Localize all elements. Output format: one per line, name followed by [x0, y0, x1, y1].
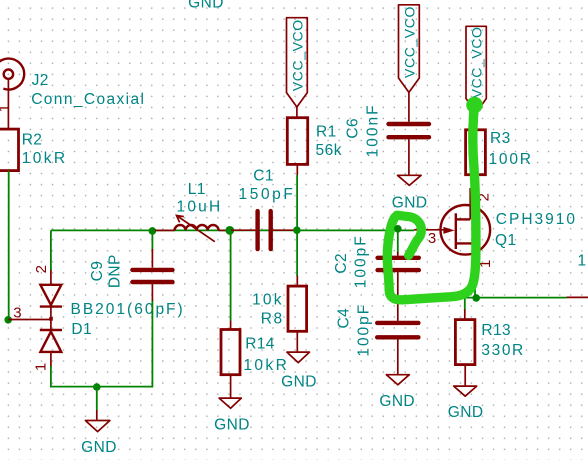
wire between diodes — [50, 307, 52, 330]
svg-text:56k: 56k — [316, 142, 343, 159]
C1 left pin — [231, 229, 255, 231]
R1 bottom pin — [296, 164, 298, 175]
wire D1 bottom loop — [51, 300, 152, 387]
wire R1 to main node — [296, 175, 298, 230]
junction C1 right / R1 / R8 — [293, 226, 301, 234]
C2 top pin — [397, 252, 399, 256]
wire pin 3 of D1 — [8, 319, 50, 321]
junction emitter/output node — [472, 294, 480, 302]
wire gate pin — [414, 229, 444, 231]
VCC #3 stem — [475, 113, 477, 130]
ground symbol under R13 — [454, 386, 477, 396]
D1 pin 3 connection square — [49, 317, 53, 321]
D1 pin 1 stub — [50, 352, 52, 367]
power flag VCC_VCO #3 — [466, 26, 486, 113]
svg-text:R13: R13 — [481, 322, 511, 339]
svg-text:CPH3910: CPH3910 — [496, 211, 577, 228]
svg-text:150pF: 150pF — [239, 186, 296, 203]
svg-text:GND: GND — [214, 417, 250, 434]
capacitor C1 — [258, 211, 271, 249]
C4 bottom pin — [397, 339, 399, 374]
C1 right pin — [273, 229, 297, 231]
R8 bottom pin — [296, 331, 298, 352]
svg-text:100nF: 100nF — [364, 103, 381, 157]
svg-text:R2: R2 — [22, 131, 43, 148]
junction at GND tap — [93, 383, 101, 391]
resistor R8 — [288, 286, 307, 331]
wire GND stem — [96, 387, 98, 410]
connector J2 coaxial symbol — [0, 59, 24, 90]
svg-text:Q1: Q1 — [495, 232, 516, 249]
L1 variable arrow — [177, 216, 215, 242]
ground symbol under R8 — [287, 352, 310, 363]
wire C2 to C4 — [397, 272, 399, 321]
R13 bottom pin — [464, 365, 466, 387]
svg-text:GND: GND — [379, 393, 415, 410]
svg-text:C2: C2 — [333, 253, 350, 274]
svg-text:J2: J2 — [32, 72, 49, 89]
D1 pin 2 stub — [50, 270, 52, 285]
Q1 collector pin — [469, 188, 471, 219]
svg-text:10k: 10k — [252, 291, 284, 308]
svg-text:1: 1 — [33, 363, 50, 371]
svg-text:R8: R8 — [261, 310, 284, 327]
svg-text:330R: 330R — [481, 342, 524, 359]
resistor R2 — [0, 129, 19, 171]
resistor R3 — [466, 130, 486, 175]
diode D1 lower varactor — [40, 330, 62, 352]
svg-text:C6: C6 — [344, 118, 361, 139]
svg-text:GND: GND — [448, 404, 484, 421]
ground symbol under D1 — [85, 410, 110, 432]
resistor R1 — [287, 118, 307, 165]
wire emitter to output node — [474, 271, 476, 298]
VCC #1 stem — [296, 107, 298, 118]
svg-text:100pF: 100pF — [355, 303, 372, 357]
svg-text:C1: C1 — [253, 168, 274, 185]
svg-text:DNP: DNP — [106, 254, 123, 288]
inductor L1 — [155, 225, 228, 230]
R8 top pin — [296, 276, 298, 287]
svg-text:10kR: 10kR — [22, 150, 68, 167]
svg-text:GND: GND — [281, 374, 317, 391]
svg-text:L1: L1 — [188, 181, 206, 198]
svg-text:R14: R14 — [245, 335, 275, 352]
svg-text:D1: D1 — [71, 321, 92, 338]
Q1 emitter pin — [474, 254, 476, 272]
svg-text:1: 1 — [0, 104, 13, 112]
wire main node to R8 — [296, 230, 298, 276]
wire R14 drop — [230, 230, 232, 321]
svg-text:3: 3 — [13, 304, 21, 321]
svg-text:10kR: 10kR — [243, 357, 289, 374]
main horizontal wire — [51, 229, 414, 231]
capacitor C2 — [378, 258, 419, 270]
svg-text:100R: 100R — [489, 151, 533, 168]
R13 top pin — [464, 309, 466, 319]
C6 bottom pin — [408, 139, 410, 175]
capacitor C4 — [377, 323, 418, 337]
svg-text:GND: GND — [81, 439, 117, 456]
svg-text:BB201(60pF): BB201(60pF) — [71, 301, 185, 318]
junction node 3 — [4, 316, 12, 324]
diode D1 upper varactor — [40, 285, 62, 307]
power flag VCC_VCO #1 — [287, 18, 308, 107]
C9 top pin — [151, 249, 153, 268]
svg-text:1: 1 — [578, 253, 587, 270]
svg-text:R1: R1 — [316, 123, 337, 140]
junction C9 top / main wire — [149, 227, 157, 235]
svg-text:GND: GND — [392, 195, 428, 212]
svg-text:C4: C4 — [336, 308, 353, 329]
wire C2 top drop — [397, 230, 399, 253]
capacitor C6 — [389, 124, 430, 137]
junction C2 top (visible over marker) — [394, 225, 402, 233]
resistor R14 — [221, 330, 240, 375]
resistor R13 — [455, 320, 475, 365]
svg-text:VCC_VCO: VCC_VCO — [469, 26, 485, 98]
transistor Q1 — [441, 205, 491, 255]
wire R13 drop — [464, 298, 466, 310]
ground symbol under R14 — [219, 398, 241, 408]
R14 bottom pin — [230, 375, 232, 398]
wire D1 top to main node — [50, 230, 52, 271]
green marker annotation stroke — [387, 97, 482, 300]
svg-text:C9: C9 — [89, 261, 106, 282]
svg-text:R3: R3 — [490, 130, 511, 147]
R14 top pin — [230, 321, 232, 330]
svg-text:GND: GND — [188, 0, 224, 12]
power flag VCC_VCO #2 — [399, 5, 420, 93]
svg-text:Conn_Coaxial: Conn_Coaxial — [31, 91, 145, 108]
svg-text:VCC_VCO: VCC_VCO — [290, 19, 306, 91]
wire C9 top — [151, 231, 153, 250]
svg-text:3: 3 — [428, 230, 436, 247]
capacitor C9 — [132, 270, 172, 282]
ground symbol under C4 — [386, 375, 409, 385]
svg-text:VCC_VCO: VCC_VCO — [402, 6, 418, 78]
svg-text:10uH: 10uH — [177, 199, 223, 216]
VCC #2 stem to C6 — [408, 92, 410, 121]
wire R2 to node 3 — [8, 171, 10, 320]
C9 bottom pin — [151, 284, 153, 301]
J2 pin 1 center pin wire — [7, 79, 9, 129]
off-sheet pin at right edge — [567, 296, 588, 298]
ground symbol under C6 — [398, 175, 422, 185]
R3 bottom pin — [475, 175, 477, 190]
output wire to right edge — [398, 297, 567, 299]
junction L1 right / C1 / R14 — [225, 226, 234, 235]
svg-text:2: 2 — [33, 265, 50, 273]
svg-text:100pF: 100pF — [353, 234, 370, 288]
